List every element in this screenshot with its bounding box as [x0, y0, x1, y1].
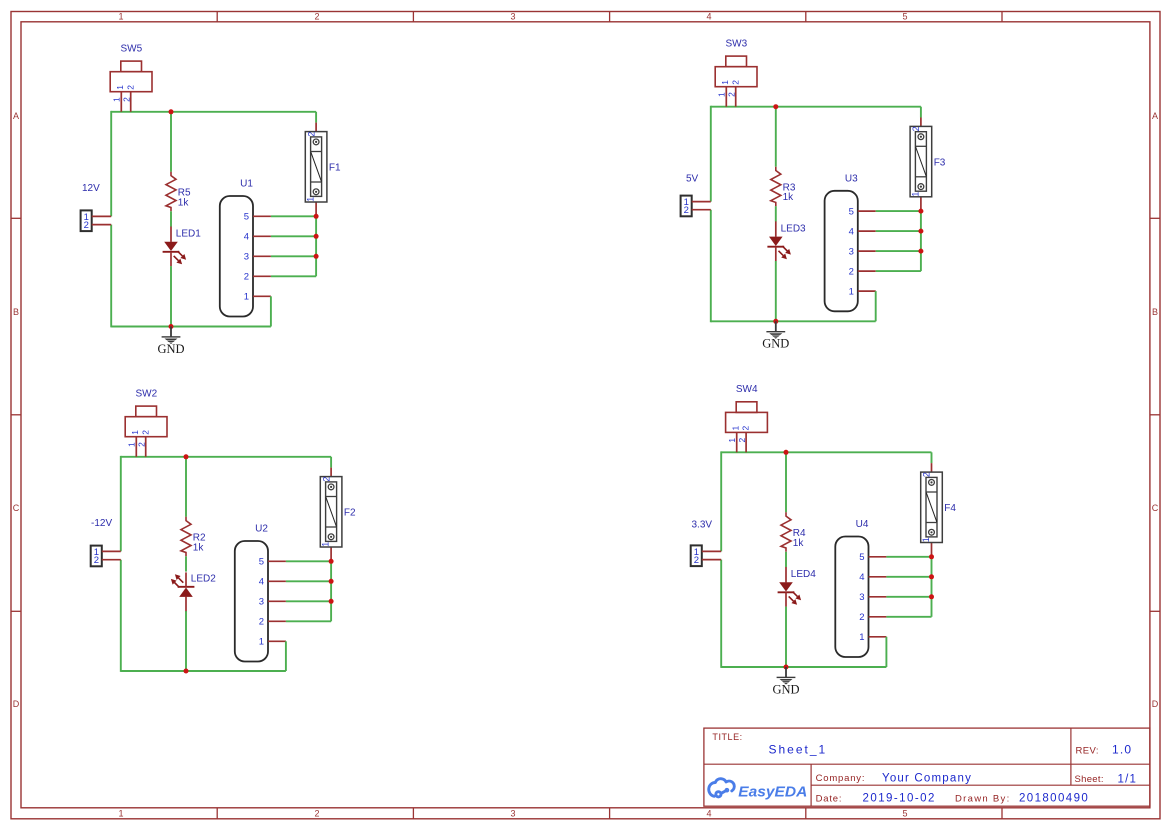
svg-text:1: 1 [306, 197, 316, 202]
svg-text:1: 1 [115, 85, 125, 90]
svg-text:B: B [13, 307, 19, 317]
svg-text:Drawn By:: Drawn By: [955, 793, 1011, 804]
svg-text:2: 2 [84, 220, 89, 231]
svg-text:1: 1 [127, 442, 137, 447]
svg-text:2: 2 [314, 808, 319, 818]
svg-text:LED1: LED1 [176, 229, 201, 240]
svg-text:LED3: LED3 [781, 224, 806, 235]
svg-text:F3: F3 [934, 157, 946, 168]
svg-text:F2: F2 [344, 508, 356, 519]
svg-text:1k: 1k [783, 192, 795, 203]
svg-text:2: 2 [694, 555, 699, 566]
svg-text:201800490: 201800490 [1019, 793, 1089, 805]
svg-text:5: 5 [902, 11, 907, 21]
svg-text:1: 1 [118, 11, 123, 21]
svg-text:4: 4 [706, 808, 711, 818]
svg-text:D: D [13, 699, 20, 709]
svg-text:F4: F4 [944, 503, 956, 514]
svg-text:2: 2 [122, 97, 132, 102]
svg-text:2: 2 [244, 272, 249, 283]
svg-text:LED2: LED2 [191, 574, 216, 585]
svg-text:GND: GND [772, 682, 799, 696]
svg-text:U3: U3 [845, 173, 858, 184]
svg-text:-12V: -12V [91, 518, 112, 529]
svg-text:1: 1 [921, 537, 931, 542]
svg-text:2: 2 [730, 80, 740, 85]
svg-text:3: 3 [859, 592, 864, 603]
svg-text:4: 4 [244, 232, 249, 243]
svg-text:3: 3 [259, 597, 264, 608]
svg-text:3: 3 [510, 11, 515, 21]
svg-text:B: B [1152, 307, 1158, 317]
svg-text:2: 2 [259, 617, 264, 628]
svg-text:SW4: SW4 [736, 384, 758, 395]
svg-text:5: 5 [259, 557, 264, 568]
svg-text:Company:: Company: [816, 773, 866, 784]
svg-text:2: 2 [922, 472, 932, 477]
svg-text:1: 1 [130, 430, 140, 435]
svg-text:5: 5 [849, 207, 854, 218]
svg-text:1: 1 [910, 192, 920, 197]
svg-text:1: 1 [720, 80, 730, 85]
svg-text:5: 5 [902, 808, 907, 818]
svg-text:SW3: SW3 [726, 38, 748, 49]
svg-text:2: 2 [137, 442, 147, 447]
svg-text:4: 4 [859, 572, 864, 583]
svg-text:1k: 1k [193, 542, 205, 553]
svg-text:1: 1 [112, 97, 122, 102]
svg-text:2: 2 [306, 132, 316, 137]
svg-text:EasyEDA: EasyEDA [738, 783, 807, 800]
svg-text:2: 2 [727, 92, 737, 97]
svg-text:1/1: 1/1 [1118, 773, 1138, 785]
svg-text:C: C [1152, 503, 1159, 513]
svg-text:5: 5 [859, 552, 864, 563]
svg-text:4: 4 [259, 577, 264, 588]
svg-text:1.0: 1.0 [1112, 743, 1132, 757]
svg-text:2: 2 [684, 205, 689, 216]
svg-text:SW5: SW5 [121, 43, 143, 54]
svg-text:D: D [1152, 699, 1159, 709]
svg-text:1: 1 [730, 425, 740, 430]
svg-text:U4: U4 [856, 519, 869, 530]
svg-text:1k: 1k [793, 538, 805, 549]
svg-text:4: 4 [706, 11, 711, 21]
svg-text:2: 2 [741, 425, 751, 430]
svg-text:1: 1 [259, 637, 264, 648]
svg-text:F1: F1 [329, 163, 341, 174]
svg-text:1: 1 [244, 292, 249, 303]
svg-text:1: 1 [727, 438, 737, 443]
svg-text:A: A [13, 111, 19, 121]
svg-text:1: 1 [321, 542, 331, 547]
svg-text:12V: 12V [82, 183, 100, 194]
svg-text:Sheet_1: Sheet_1 [769, 743, 828, 757]
svg-text:2: 2 [859, 612, 864, 623]
svg-text:2: 2 [737, 438, 747, 443]
svg-text:GND: GND [762, 337, 789, 351]
svg-text:3.3V: 3.3V [692, 519, 713, 530]
svg-text:3: 3 [510, 808, 515, 818]
svg-text:2: 2 [849, 267, 854, 278]
svg-text:GND: GND [157, 342, 184, 356]
svg-text:REV:: REV: [1076, 745, 1099, 756]
svg-text:2: 2 [94, 555, 99, 566]
svg-text:3: 3 [849, 247, 854, 258]
svg-text:2: 2 [911, 126, 921, 131]
svg-text:1: 1 [849, 287, 854, 298]
svg-text:1: 1 [859, 632, 864, 643]
svg-text:SW2: SW2 [136, 388, 158, 399]
svg-text:C: C [13, 503, 20, 513]
svg-text:TITLE:: TITLE: [712, 732, 742, 742]
svg-text:2: 2 [321, 477, 331, 482]
svg-text:2019-10-02: 2019-10-02 [863, 793, 936, 805]
svg-text:1k: 1k [178, 197, 190, 208]
svg-text:5: 5 [244, 212, 249, 223]
svg-text:2: 2 [140, 430, 150, 435]
svg-text:Your Company: Your Company [882, 772, 972, 784]
svg-text:2: 2 [314, 11, 319, 21]
svg-text:LED4: LED4 [791, 569, 816, 580]
svg-text:1: 1 [717, 92, 727, 97]
svg-text:1: 1 [118, 808, 123, 818]
svg-text:Sheet:: Sheet: [1075, 774, 1104, 785]
svg-text:2: 2 [125, 85, 135, 90]
svg-text:3: 3 [244, 252, 249, 263]
svg-text:4: 4 [849, 227, 854, 238]
svg-text:A: A [1152, 111, 1158, 121]
svg-text:Date:: Date: [816, 793, 843, 804]
svg-text:U1: U1 [240, 179, 253, 190]
svg-text:5V: 5V [686, 174, 699, 185]
svg-text:U2: U2 [255, 524, 268, 535]
